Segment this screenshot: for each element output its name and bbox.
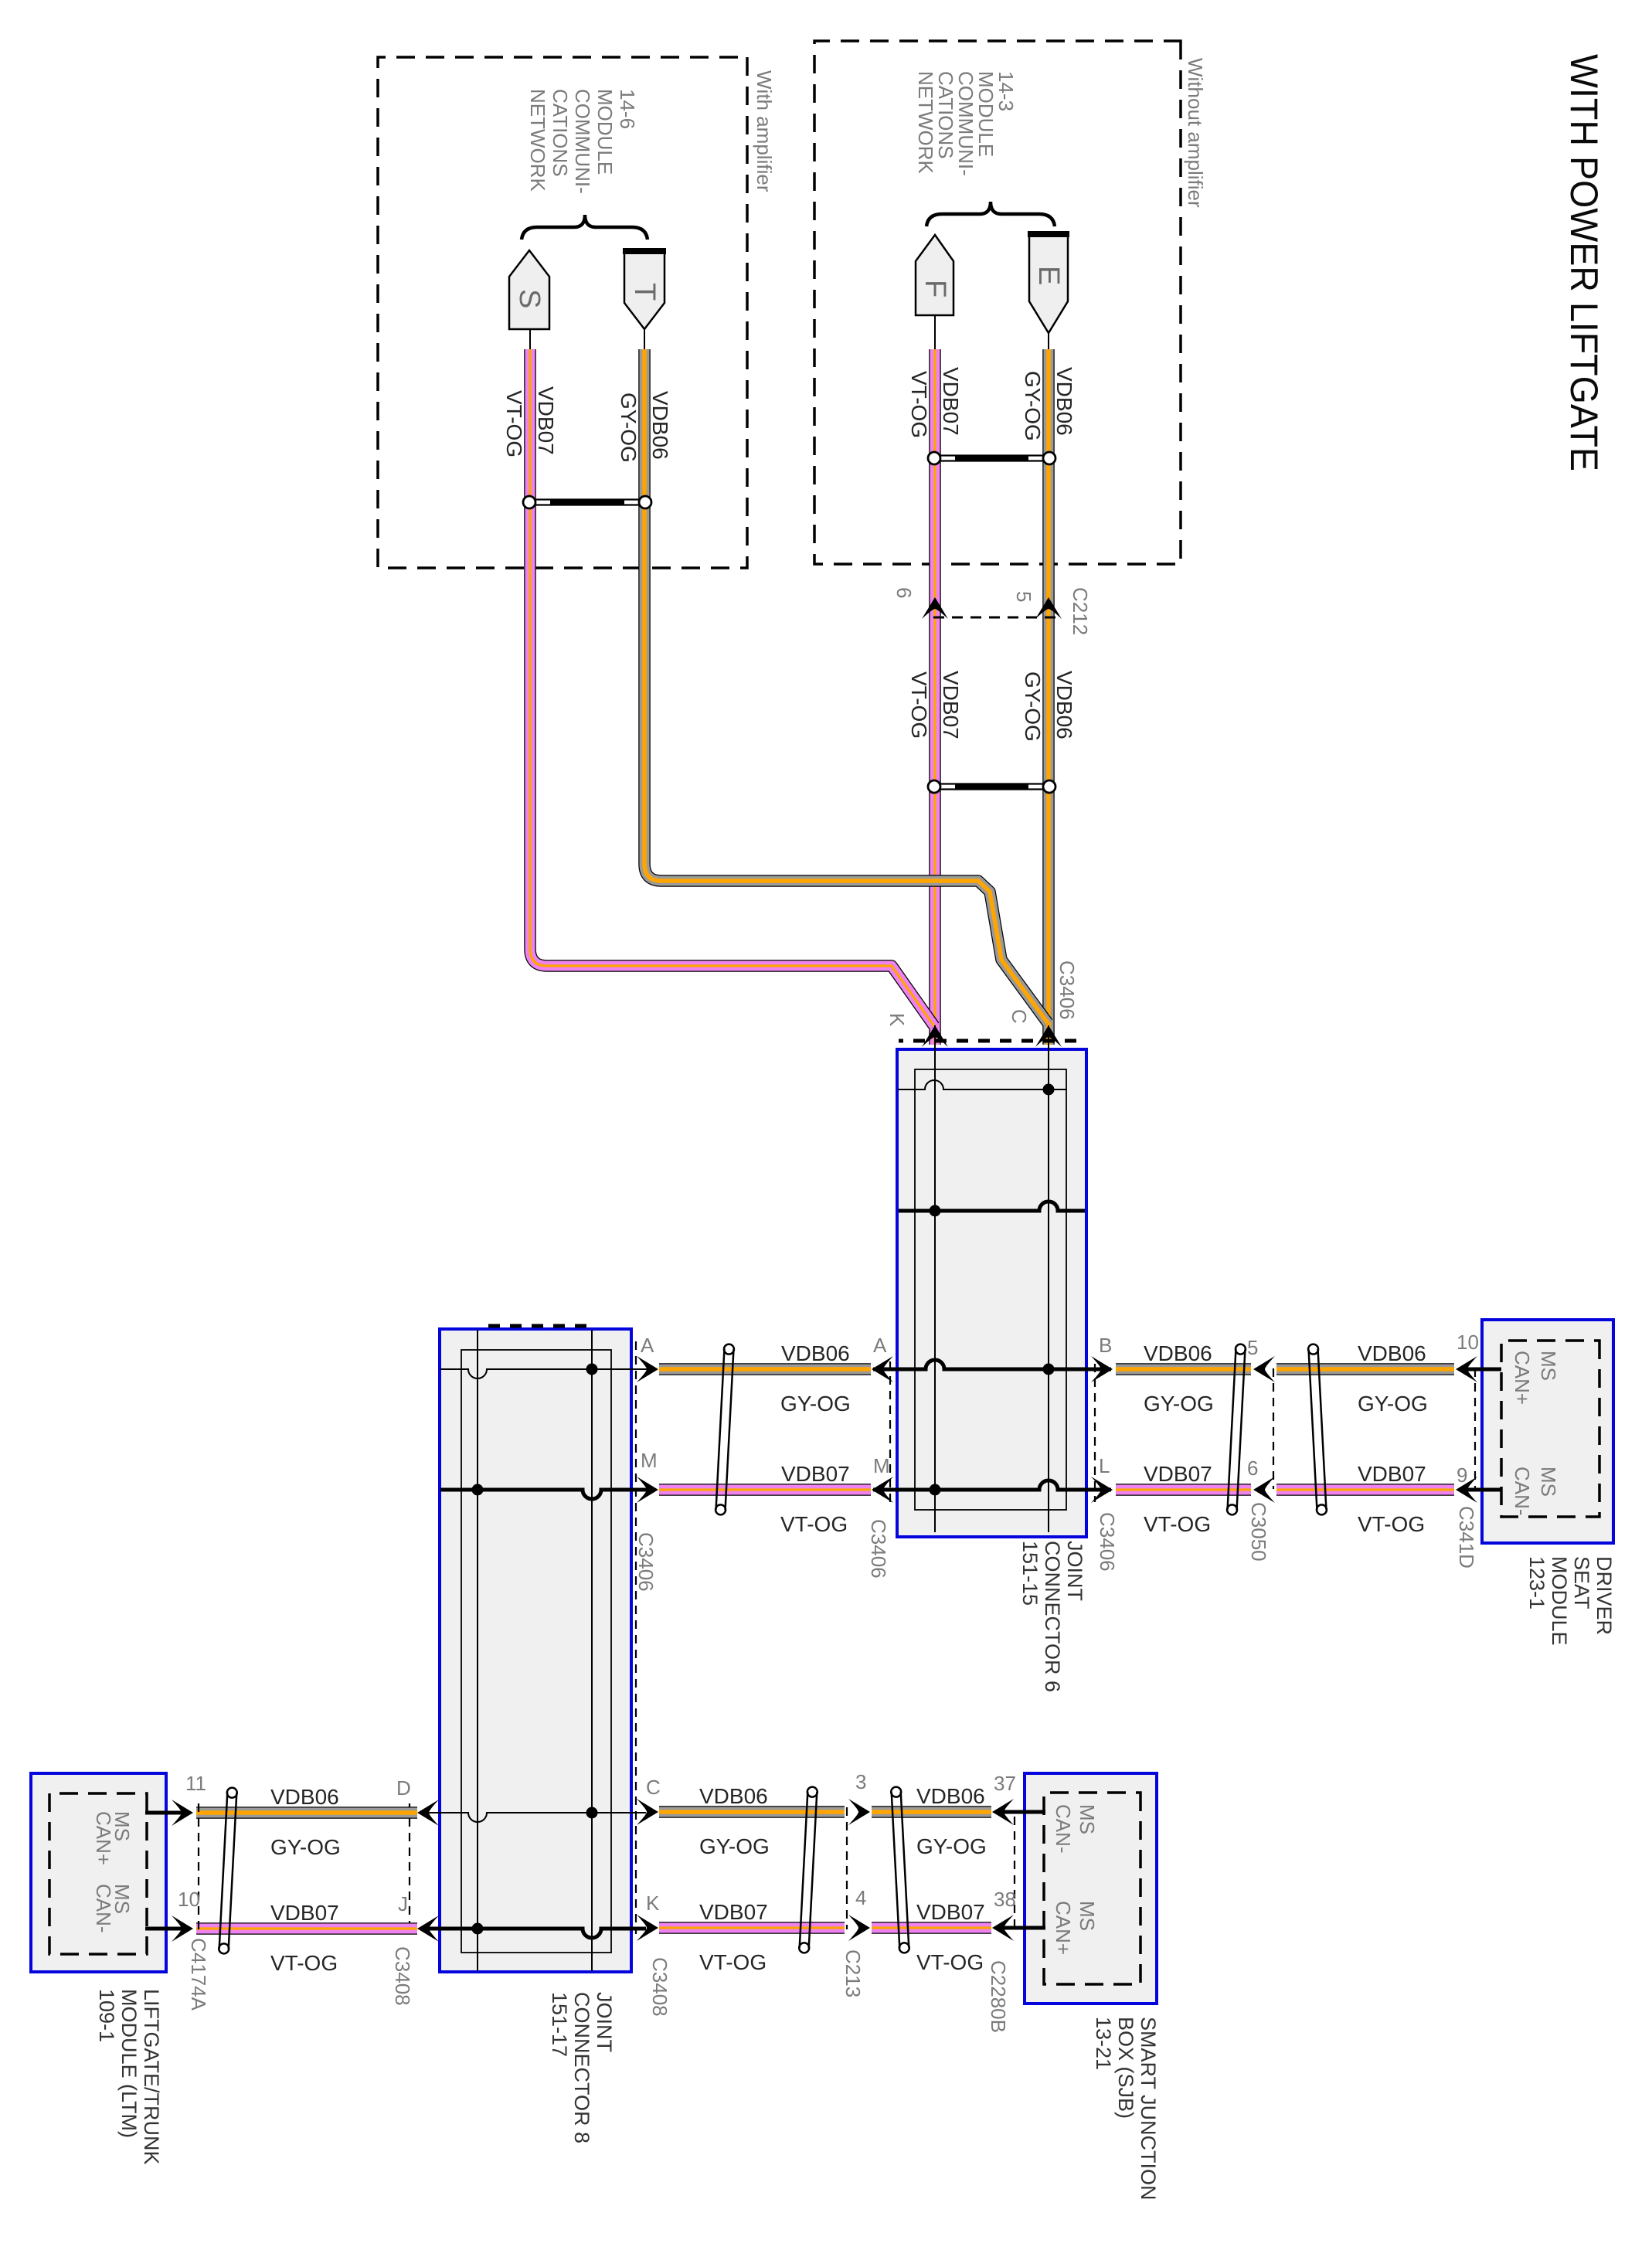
svg-text:C3406: C3406 xyxy=(1096,1512,1119,1572)
svg-text:GY-OG: GY-OG xyxy=(780,1392,851,1416)
svg-text:C3406: C3406 xyxy=(634,1532,658,1592)
svg-text:3: 3 xyxy=(855,1770,866,1793)
svg-text:5: 5 xyxy=(1012,591,1035,602)
off-page connector E xyxy=(1029,233,1068,333)
connector C3406 dashed at JC6 top xyxy=(1094,1364,1096,1502)
svg-text:C3406: C3406 xyxy=(1055,960,1079,1020)
svg-text:VT-OG: VT-OG xyxy=(916,1950,984,1974)
DSM pin stub 9 xyxy=(1463,1488,1501,1492)
svg-text:C3050: C3050 xyxy=(1247,1502,1270,1562)
smart junction box xyxy=(1025,1773,1157,2004)
svg-text:C212: C212 xyxy=(1069,587,1092,635)
svg-text:VDB07: VDB07 xyxy=(939,671,963,739)
svg-text:SEAT: SEAT xyxy=(1570,1556,1593,1609)
pin A arrow at JC8 xyxy=(637,1356,658,1382)
connector C3408 dashed at JC8 bottom xyxy=(409,1803,410,1934)
svg-text:C4174A: C4174A xyxy=(187,1938,210,2011)
svg-text:VT-OG: VT-OG xyxy=(907,671,931,739)
pin 5 arrow at C3050 xyxy=(1253,1356,1275,1382)
pin M arrow at JC8 xyxy=(637,1477,658,1503)
svg-text:VT-OG: VT-OG xyxy=(780,1512,848,1536)
pin D arrow xyxy=(417,1800,439,1826)
svg-text:VDB06: VDB06 xyxy=(1144,1341,1212,1365)
svg-text:109-1: 109-1 xyxy=(95,1989,118,2042)
svg-text:GY-OG: GY-OG xyxy=(699,1834,770,1858)
brace for 14-6 network xyxy=(522,215,648,240)
pin 9 arrow at DSM xyxy=(1456,1477,1477,1503)
svg-text:SMART JUNCTION: SMART JUNCTION xyxy=(1137,2017,1160,2201)
wire VDB07 VT-OG K to 4 xyxy=(659,1927,845,1929)
svg-text:VDB07: VDB07 xyxy=(1144,1462,1212,1486)
svg-text:VDB07: VDB07 xyxy=(939,367,963,436)
svg-text:CAN+: CAN+ xyxy=(1052,1901,1075,1955)
pin 11 arrow at LTM xyxy=(172,1800,193,1826)
JC8 internal wire 2 xyxy=(477,1330,478,1971)
svg-text:M: M xyxy=(873,1454,890,1477)
svg-text:VDB07: VDB07 xyxy=(534,386,558,455)
svg-text:B: B xyxy=(1099,1334,1112,1357)
svg-text:K: K xyxy=(646,1892,660,1915)
svg-text:VT-OG: VT-OG xyxy=(270,1951,338,1975)
svg-text:M: M xyxy=(641,1449,658,1472)
svg-text:MODULE: MODULE xyxy=(1548,1556,1571,1646)
twisted pair C/K wires xyxy=(799,1786,818,1953)
svg-text:CAN-: CAN- xyxy=(1052,1804,1075,1854)
svg-text:Without amplifier: Without amplifier xyxy=(1184,58,1207,208)
pin K arrow at JC8 xyxy=(637,1915,658,1941)
svg-text:VT-OG: VT-OG xyxy=(1358,1512,1425,1536)
lead from E xyxy=(1048,333,1049,352)
svg-text:C3408: C3408 xyxy=(391,1946,414,2006)
svg-text:GY-OG: GY-OG xyxy=(916,1834,987,1858)
svg-text:10: 10 xyxy=(1457,1331,1479,1354)
svg-text:NETWORK: NETWORK xyxy=(914,71,937,175)
connector C341D dashed xyxy=(1474,1368,1476,1489)
svg-text:DRIVER: DRIVER xyxy=(1593,1556,1616,1635)
wire VDB06 GY-OG 3 to 37 xyxy=(872,1811,991,1813)
wire VDB07 VT-OG from S xyxy=(530,349,934,1026)
connector C212 dashed line xyxy=(928,617,1055,619)
svg-text:123-1: 123-1 xyxy=(1525,1556,1548,1609)
off-page connector F xyxy=(916,235,953,315)
svg-text:J: J xyxy=(398,1892,408,1915)
twisted pair symbol after C212 xyxy=(928,780,1055,793)
svg-text:NETWORK: NETWORK xyxy=(526,89,549,192)
svg-text:VDB06: VDB06 xyxy=(648,391,672,460)
svg-text:CATIONS: CATIONS xyxy=(549,89,572,177)
dashed box: Without amplifier xyxy=(814,41,1181,564)
svg-text:F: F xyxy=(919,280,951,297)
twisted pair symbol S/T xyxy=(523,496,651,508)
connector C213 dashed xyxy=(846,1807,848,1929)
svg-text:MODULE (LTM): MODULE (LTM) xyxy=(117,1989,141,2138)
pin M arrow at JC6 xyxy=(872,1477,893,1503)
wire VDB07 VT-OG from F xyxy=(934,349,936,1045)
connector C3406 dashed at JC6 bottom xyxy=(889,1361,891,1505)
svg-text:VDB07: VDB07 xyxy=(1358,1462,1426,1486)
dashed box: With amplifier xyxy=(378,57,747,568)
liftgate trunk module box xyxy=(31,1773,166,1972)
pin A arrow at JC6 xyxy=(872,1356,893,1382)
svg-text:A: A xyxy=(641,1334,654,1357)
JC6 bus 1 xyxy=(898,1080,1066,1089)
svg-text:JOINT: JOINT xyxy=(593,1992,616,2052)
svg-text:VDB07: VDB07 xyxy=(699,1900,768,1924)
svg-text:4: 4 xyxy=(855,1886,866,1909)
JC6 bus 3 wire B/A xyxy=(873,1360,1111,1369)
twisted pair 3-37/4-38 wires xyxy=(891,1786,909,1953)
svg-text:WITH POWER LIFTGATE: WITH POWER LIFTGATE xyxy=(1562,54,1606,471)
pin K arrow xyxy=(922,1025,948,1047)
svg-text:VT-OG: VT-OG xyxy=(1144,1512,1211,1536)
svg-text:C2280B: C2280B xyxy=(987,1960,1010,2033)
svg-text:S: S xyxy=(513,289,546,308)
svg-text:9: 9 xyxy=(1457,1463,1467,1487)
svg-text:C341D: C341D xyxy=(1455,1506,1478,1569)
svg-text:VDB07: VDB07 xyxy=(781,1462,850,1486)
driver seat module box xyxy=(1482,1320,1613,1543)
svg-text:VT-OG: VT-OG xyxy=(907,371,931,438)
connector C2280B dashed xyxy=(1014,1817,1015,1927)
twisted pair 5-10/6-9 wires xyxy=(1308,1344,1327,1514)
pin 3 arrow at C213 xyxy=(848,1799,870,1825)
wire VDB07 VT-OG L to 6 xyxy=(1116,1489,1251,1491)
SJB pin stub 38 xyxy=(1000,1926,1045,1930)
svg-text:C: C xyxy=(1008,1009,1031,1024)
wire VDB06 GY-OG D to 11 xyxy=(196,1812,417,1813)
wire VDB06 GY-OG B to 5 xyxy=(1116,1368,1251,1370)
svg-text:MS: MS xyxy=(1537,1467,1560,1497)
svg-text:MS: MS xyxy=(1537,1351,1560,1381)
twisted pair D/J wires xyxy=(219,1787,237,1953)
svg-text:With amplifier: With amplifier xyxy=(753,70,776,192)
pin 6 arrow at C212 xyxy=(922,597,948,619)
heavy dashed segment at JC8 left edge xyxy=(478,1324,586,1328)
pin C arrow xyxy=(1035,1025,1062,1047)
wire VDB07 VT-OG M to M xyxy=(659,1489,871,1491)
LTM pin stub 10 xyxy=(145,1927,190,1931)
svg-text:CAN+: CAN+ xyxy=(92,1811,115,1865)
lead from T xyxy=(644,329,645,352)
svg-text:6: 6 xyxy=(1247,1457,1258,1480)
pin 38 arrow at SJB xyxy=(992,1915,1014,1941)
connector C3050 dashed xyxy=(1273,1368,1274,1489)
svg-text:GY-OG: GY-OG xyxy=(1021,371,1045,441)
pin 10 arrow at LTM xyxy=(172,1915,193,1942)
JC6 bus 2 xyxy=(899,1202,1085,1211)
pin B arrow xyxy=(1091,1356,1113,1382)
wire K inside JC6 xyxy=(934,1025,936,1532)
connector dashed line at JC8 top xyxy=(635,1341,637,1934)
JC6 bus 4 wire L/M xyxy=(873,1480,1111,1490)
svg-text:CONNECTOR 8: CONNECTOR 8 xyxy=(570,1992,593,2143)
svg-text:GY-OG: GY-OG xyxy=(1021,671,1045,742)
off-page connector T xyxy=(624,250,665,329)
svg-text:37: 37 xyxy=(994,1772,1016,1795)
svg-text:13-21: 13-21 xyxy=(1092,2017,1115,2070)
svg-text:10: 10 xyxy=(178,1888,200,1911)
connector C3406 dashed line at K/C xyxy=(899,1039,1076,1043)
svg-text:C3406: C3406 xyxy=(867,1519,890,1579)
svg-text:6: 6 xyxy=(892,587,916,598)
svg-text:LIFTGATE/TRUNK: LIFTGATE/TRUNK xyxy=(140,1989,163,2165)
svg-text:E: E xyxy=(1032,266,1065,285)
svg-text:JOINT: JOINT xyxy=(1063,1541,1086,1601)
svg-text:VDB06: VDB06 xyxy=(781,1341,850,1365)
svg-text:VT-OG: VT-OG xyxy=(502,390,526,457)
svg-text:K: K xyxy=(885,1013,909,1027)
joint connector 8 box xyxy=(440,1329,631,1972)
twisted pair A/M wires xyxy=(716,1344,735,1514)
JC8 bus M xyxy=(440,1490,655,1499)
wire C inside JC6 xyxy=(1048,1025,1049,1532)
joint connector 6 box xyxy=(897,1049,1086,1537)
svg-text:L: L xyxy=(1099,1454,1110,1477)
svg-text:CAN-: CAN- xyxy=(92,1884,115,1933)
twisted pair B/L wires xyxy=(1227,1344,1246,1514)
svg-text:14-6: 14-6 xyxy=(616,89,639,129)
svg-text:COMMUNI-: COMMUNI- xyxy=(571,89,594,194)
pin 4 arrow at C213 xyxy=(848,1915,870,1941)
svg-text:C3408: C3408 xyxy=(648,1957,671,2017)
svg-text:VDB06: VDB06 xyxy=(1052,671,1076,739)
wire VDB06 GY-OG from E xyxy=(1048,349,1049,1045)
svg-text:151-17: 151-17 xyxy=(548,1992,571,2057)
svg-text:CAN-: CAN- xyxy=(1511,1467,1534,1516)
pin 37 arrow at SJB xyxy=(992,1799,1014,1825)
JC8 bus D/C xyxy=(420,1813,646,1822)
connector C4174A dashed xyxy=(198,1803,199,1934)
svg-text:T: T xyxy=(628,283,661,301)
lead from S xyxy=(529,329,531,352)
svg-text:GY-OG: GY-OG xyxy=(1144,1392,1214,1416)
pin J arrow xyxy=(417,1915,439,1942)
wire VDB06 GY-OG 5 to 10 xyxy=(1276,1368,1454,1370)
wire VDB06 GY-OG C to 3 xyxy=(659,1811,845,1813)
svg-text:GY-OG: GY-OG xyxy=(617,393,641,463)
off-page connector S xyxy=(509,250,549,329)
svg-text:C213: C213 xyxy=(841,1949,865,1997)
wire VDB06 GY-OG A to A xyxy=(659,1368,871,1370)
svg-text:A: A xyxy=(873,1334,887,1357)
svg-text:MS: MS xyxy=(1076,1901,1099,1931)
pin 6 arrow at C3050 xyxy=(1253,1477,1275,1503)
svg-text:BOX (SJB): BOX (SJB) xyxy=(1114,2017,1137,2119)
svg-text:VDB06: VDB06 xyxy=(916,1784,985,1808)
wire VDB07 VT-OG J to 10 xyxy=(196,1928,417,1929)
svg-text:VDB07: VDB07 xyxy=(916,1900,985,1924)
svg-text:VDB07: VDB07 xyxy=(270,1901,339,1925)
svg-text:C: C xyxy=(646,1776,661,1799)
DSM pin stub 10 xyxy=(1463,1368,1501,1372)
svg-text:GY-OG: GY-OG xyxy=(1358,1392,1428,1416)
LTM pin stub 11 xyxy=(145,1811,190,1815)
brace for 14-3 network xyxy=(926,202,1055,226)
svg-text:CONNECTOR 6: CONNECTOR 6 xyxy=(1041,1541,1064,1692)
pin 10 arrow at DSM xyxy=(1456,1356,1477,1382)
pin L arrow xyxy=(1091,1477,1113,1503)
svg-text:VT-OG: VT-OG xyxy=(699,1950,767,1974)
pin C arrow at JC8 xyxy=(637,1799,658,1825)
svg-text:38: 38 xyxy=(994,1888,1016,1911)
twisted pair symbol E/F xyxy=(928,452,1055,464)
svg-text:11: 11 xyxy=(185,1772,206,1795)
svg-text:CAN+: CAN+ xyxy=(1511,1351,1534,1405)
svg-text:GY-OG: GY-OG xyxy=(270,1835,341,1859)
svg-text:151-15: 151-15 xyxy=(1018,1541,1042,1606)
pin 5 arrow at C212 xyxy=(1035,597,1062,619)
svg-text:VDB06: VDB06 xyxy=(270,1785,339,1809)
lead from F xyxy=(934,315,936,352)
JC8 bus J/K xyxy=(420,1929,646,1938)
svg-text:VDB06: VDB06 xyxy=(1358,1341,1426,1365)
svg-text:MS: MS xyxy=(1076,1804,1099,1834)
svg-text:MODULE: MODULE xyxy=(593,89,617,175)
JC8 internal wire 1 xyxy=(591,1330,593,1971)
wire VDB06 GY-OG from T xyxy=(644,349,1048,1023)
svg-text:5: 5 xyxy=(1247,1336,1258,1359)
wire VDB07 VT-OG 6 to 9 xyxy=(1276,1489,1454,1491)
svg-text:D: D xyxy=(396,1776,411,1800)
svg-text:VDB06: VDB06 xyxy=(1052,367,1076,436)
svg-text:VDB06: VDB06 xyxy=(699,1784,768,1808)
SJB pin stub 37 xyxy=(1000,1810,1045,1814)
wire VDB07 VT-OG 4 to 38 xyxy=(872,1927,991,1929)
JC8 bus A xyxy=(440,1369,655,1378)
